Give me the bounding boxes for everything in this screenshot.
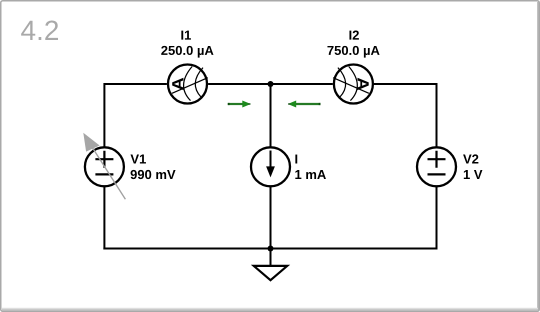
label I [295,155,297,164]
value 990 mV [131,170,176,179]
value 1 V [464,170,483,179]
voltage source V1 [85,147,124,186]
wire left lower: V1 down to bottom rail [103,187,105,250]
ammeter I1 [168,65,208,104]
green current arrow into node A from left [228,101,251,108]
green current arrow into node A from right [288,101,321,108]
node A junction dot (top centre) [268,81,274,87]
label I2 [349,31,358,40]
label I1 [181,31,191,40]
ground stub wire [270,249,272,267]
value 250.0 µA [161,46,213,58]
label 4.2 (page number) [21,20,58,40]
voltage source V2 [417,147,456,186]
wire middle lower: current source I down to bottom node [270,187,272,249]
wire left upper: top rail down to V1 [103,83,105,147]
wire top-middle: ammeter I1 to ammeter I2 [208,83,333,85]
wire bottom rail [103,248,437,250]
wire right upper: top rail down to V2 [436,83,438,147]
label V2 [463,154,478,163]
ammeter I2 [333,65,373,104]
variable-source cursor arrow over V1 [83,133,125,200]
value 1 mA [295,170,326,179]
wire middle upper: node A down to current source I [270,84,272,147]
ground [254,266,287,280]
value 750.0 µA [327,46,379,58]
wire top-right: ammeter I2 to V2 top [374,83,438,85]
label V1 [130,155,145,164]
current source I [251,147,290,186]
wire top-left: V1 top to ammeter I1 [104,83,166,85]
wire right lower: V2 down to bottom rail [436,187,438,250]
bottom node junction dot [268,246,274,252]
